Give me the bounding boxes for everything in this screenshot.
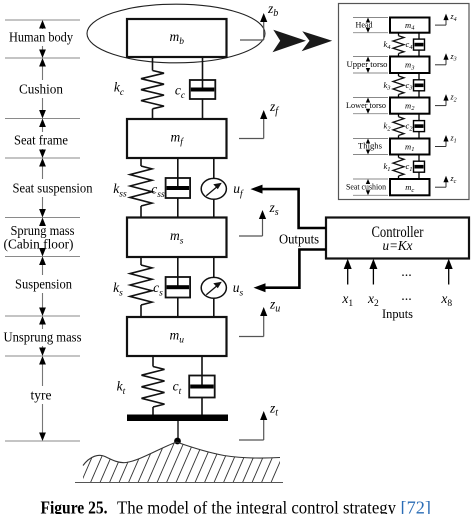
- svg-text:Upper torso: Upper torso: [347, 59, 388, 69]
- svg-text:Cushion: Cushion: [19, 82, 63, 97]
- svg-text:...: ...: [401, 289, 412, 304]
- svg-text:Outputs: Outputs: [279, 232, 319, 247]
- svg-text:Figure 25.: Figure 25.: [41, 498, 108, 515]
- svg-text:Suspension: Suspension: [15, 277, 72, 292]
- svg-text:Head: Head: [356, 19, 374, 29]
- svg-text:Seat frame: Seat frame: [14, 133, 68, 148]
- svg-text:Inputs: Inputs: [382, 306, 413, 321]
- svg-text:(Cabin floor): (Cabin floor): [4, 237, 74, 252]
- svg-text:Unsprung mass: Unsprung mass: [4, 330, 82, 345]
- svg-text:Thighs: Thighs: [358, 141, 382, 151]
- svg-text:The model of the integral cont: The model of the integral control strate…: [117, 498, 396, 515]
- svg-text:Lower torso: Lower torso: [346, 100, 386, 110]
- svg-text:...: ...: [401, 265, 412, 280]
- svg-text:[72]: [72]: [401, 498, 432, 515]
- svg-text:Seat suspension: Seat suspension: [13, 181, 93, 196]
- svg-text:Seat cushion: Seat cushion: [346, 181, 387, 191]
- svg-text:tyre: tyre: [31, 388, 52, 403]
- svg-text:u=Kx: u=Kx: [383, 239, 414, 254]
- svg-text:Human body: Human body: [9, 30, 73, 45]
